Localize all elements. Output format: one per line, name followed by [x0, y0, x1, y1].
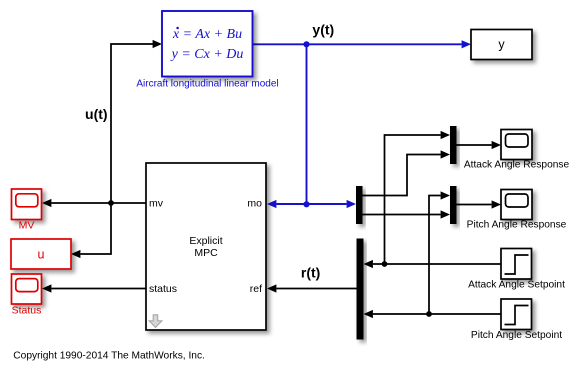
controller block "Explicit MPC" [146, 163, 266, 330]
wire: mv output to MV scope [42, 199, 146, 207]
svg-text:Attack Angle Response: Attack Angle Response [464, 160, 570, 171]
wire: blue y(t) from state-space to y outport [253, 40, 472, 48]
value: state equation line 1 [172, 27, 242, 42]
junction: y(t) branch [303, 41, 309, 47]
svg-text:Copyright 1990-2014 The MathWo: Copyright 1990-2014 The MathWorks, Inc. [13, 351, 205, 362]
svg-text:x = Ax + Bu: x = Ax + Bu [172, 27, 242, 42]
svg-text:y(t): y(t) [312, 22, 334, 38]
svg-text:y: y [498, 38, 505, 52]
mux1 (attack angle compare) [450, 126, 457, 164]
svg-text:MPC: MPC [194, 247, 218, 259]
junction: mo wire branch [303, 201, 309, 207]
junction: pitch setpoint branch [426, 311, 432, 317]
reference mux (setpoints) [357, 239, 364, 340]
junction: attack setpoint branch [382, 261, 388, 267]
scope "Pitch Angle Response" [501, 190, 532, 220]
svg-text:Status: Status [12, 305, 42, 317]
wire: u(t) feedback branch up to state-space input [111, 40, 162, 203]
scope Status [12, 274, 42, 304]
svg-text:MV: MV [19, 220, 35, 232]
junction: mv wire branch [108, 200, 114, 206]
wire: blue vertical y(t) branch down [306, 44, 308, 204]
wire: mux2 output to Pitch Angle Response scope [457, 200, 502, 208]
icon: gray dropdown arrow [149, 315, 162, 328]
svg-text:y = Cx + Du: y = Cx + Du [170, 47, 244, 62]
state-space block U1 "Aircraft longitudinal linear model" [162, 11, 253, 77]
svg-text:ref: ref [250, 283, 262, 295]
svg-text:Aircraft longitudinal linear m: Aircraft longitudinal linear model [136, 79, 278, 90]
svg-text:Explicit: Explicit [189, 235, 222, 247]
scope MV [12, 189, 42, 220]
outport block u [11, 239, 71, 269]
label: Explicit MPC [189, 235, 222, 259]
svg-text:u(t): u(t) [85, 106, 108, 122]
wire: Pitch Angle Setpoint to reference mux [364, 310, 502, 318]
wire: mux1 output to Attack Angle Response scope [457, 141, 502, 149]
svg-text:Pitch Angle Setpoint: Pitch Angle Setpoint [471, 330, 562, 341]
wire: demux output 1 to mux1 lower input [363, 150, 451, 195]
mux2 (pitch angle compare) [450, 186, 457, 224]
svg-text:Pitch Angle Response: Pitch Angle Response [467, 220, 567, 231]
wire: demux output 2 to mux2 lower input [363, 210, 451, 218]
step block "Attack Angle Setpoint" [501, 249, 532, 280]
svg-text:status: status [149, 283, 177, 295]
svg-text:mv: mv [149, 198, 164, 210]
wire: status output to Status scope [42, 284, 146, 292]
wire: mv branch down to u block [71, 203, 111, 258]
wire: attack setpoint branch to mux1 upper input [385, 131, 451, 264]
wire: r(t) from reference mux into ref port [267, 284, 357, 292]
svg-text:u: u [38, 248, 45, 262]
svg-text:r(t): r(t) [301, 265, 320, 281]
svg-text:Attack Angle Setpoint: Attack Angle Setpoint [468, 280, 565, 291]
wire: blue into demux [307, 200, 357, 208]
wire: pitch setpoint branch to mux2 upper input [429, 191, 450, 314]
demux (mo signals) [356, 186, 363, 224]
wire: blue into mo port [267, 200, 307, 208]
scope "Attack Angle Response" [501, 130, 532, 160]
step block "Pitch Angle Setpoint" [501, 299, 532, 330]
outport block y [471, 30, 532, 60]
svg-text:mo: mo [247, 198, 262, 210]
wire: Attack Angle Setpoint to reference mux [364, 260, 502, 268]
